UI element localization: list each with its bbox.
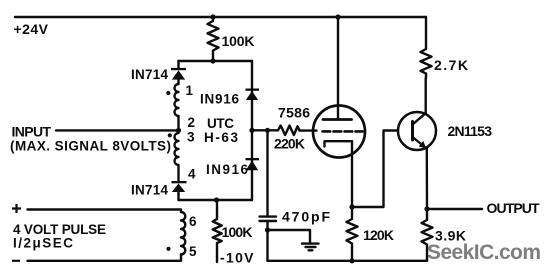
resistor R1 100K (top): [208, 17, 219, 61]
label + pulse: [12, 204, 21, 213]
pulse source top wire: [28, 210, 182, 213]
svg-text:6: 6: [189, 214, 197, 229]
svg-text:3: 3: [187, 130, 195, 145]
svg-text:IN714: IN714: [131, 183, 168, 198]
inductor winding 5-6: [181, 212, 185, 255]
svg-text:2: 2: [188, 115, 196, 130]
junction node cap/ground: [265, 227, 270, 232]
wire OUTPUT lead: [427, 208, 482, 210]
svg-text:1: 1: [186, 83, 194, 98]
svg-text:2N1153: 2N1153: [448, 123, 493, 139]
svg-text:SeekIC.com: SeekIC.com: [427, 241, 541, 264]
junction node box bottom/100K: [214, 197, 219, 202]
svg-text:INPUT: INPUT: [12, 123, 52, 139]
inductor winding 1-2: [175, 84, 179, 116]
wire 220K to tube grid: [300, 129, 317, 131]
wire box left edge upper: [177, 61, 179, 69]
junction node emitter/output: [424, 206, 429, 211]
wire 2.7K drop from rail corner: [425, 17, 427, 49]
junction node cathode: [349, 204, 354, 209]
capacitor C1 branch wire upper: [266, 130, 268, 215]
transistor emitter arrow: [419, 141, 426, 148]
transistor base bar: [411, 122, 414, 141]
transistor Q1 2N1153 envelope: [398, 112, 436, 150]
diode D4 1N916 (bottom): [246, 158, 260, 160]
svg-text:100K: 100K: [222, 224, 253, 240]
phasing dot pin3: [168, 133, 172, 137]
diode D1 1N714 (top): [171, 68, 186, 70]
resistor R3 120K: [347, 207, 358, 261]
wire below bottom diode: [177, 192, 179, 201]
wire cathode node to base riser: [352, 131, 398, 208]
wire INPUT lead: [56, 129, 179, 131]
svg-text:100K: 100K: [222, 33, 255, 49]
svg-text:+24V: +24V: [14, 21, 49, 37]
tube plate bar: [323, 118, 352, 121]
wire left edge lower: [177, 165, 179, 182]
transformer box top edge: [179, 60, 253, 62]
wire bottom rail: [268, 260, 428, 262]
transformer box bottom edge: [179, 199, 253, 201]
phasing dot pin1: [166, 91, 170, 95]
wire +24V top rail: [15, 16, 426, 18]
label - pulse: [12, 260, 20, 262]
wire left edge between diode and winding: [177, 80, 179, 85]
phasing dot pin5: [166, 247, 170, 251]
junction node box top/100K: [210, 58, 215, 63]
svg-text:5: 5: [189, 244, 197, 259]
transistor collector stroke: [413, 113, 426, 124]
svg-text:470pF: 470pF: [282, 209, 330, 225]
capacitor C1 470pF plates: [260, 217, 277, 221]
junction node rail/tube plate: [335, 14, 340, 19]
svg-text:IN916: IN916: [200, 92, 239, 107]
resistor R4 2.7K: [421, 49, 432, 78]
svg-text:4: 4: [188, 167, 196, 182]
diode D3 1N916 (top): [246, 89, 260, 91]
capacitor C1 branch wire lower: [266, 221, 268, 261]
transformer box right edge: [251, 61, 253, 200]
wire ground branch: [268, 230, 311, 243]
svg-text:OUTPUT: OUTPUT: [487, 200, 540, 216]
junction node box right/grid: [249, 128, 254, 133]
wire tube plate lead from rail: [337, 17, 339, 118]
inductor winding 3-4: [175, 133, 179, 165]
wire left edge mid (node input junction): [177, 116, 179, 133]
wire emitter down to output node: [426, 149, 429, 210]
tube V1 7586 envelope: [313, 106, 365, 158]
ground symbol: [302, 244, 319, 251]
svg-text:-10V: -10V: [220, 250, 254, 266]
svg-text:220K: 220K: [274, 136, 305, 152]
svg-text:2.7K: 2.7K: [434, 57, 468, 73]
junction node rail/100K: [210, 14, 215, 19]
diode D2 1N714 (bottom): [172, 181, 187, 183]
wire collector up to 2.7K: [425, 78, 427, 113]
resistor R5 3.9K: [422, 209, 433, 261]
svg-text:UTC: UTC: [207, 116, 234, 131]
svg-text:(MAX. SIGNAL 8VOLTS): (MAX. SIGNAL 8VOLTS): [10, 139, 171, 154]
tube cathode: [325, 141, 353, 146]
svg-text:H-63: H-63: [204, 130, 238, 145]
junction node rail/120K: [349, 258, 354, 263]
pulse source bottom wire: [28, 255, 182, 261]
resistor R2 220K: [278, 126, 300, 135]
transistor emitter stroke: [413, 137, 427, 149]
svg-text:IN714: IN714: [131, 67, 168, 82]
svg-text:120K: 120K: [363, 227, 394, 243]
resistor R6 100K (bottom, to -10V): [213, 200, 222, 262]
svg-text:IN916: IN916: [206, 162, 248, 177]
tube grid dashes: [323, 130, 363, 133]
junction node grid/cap branch: [265, 128, 270, 133]
svg-text:7586: 7586: [278, 105, 310, 121]
junction node input/winding: [176, 128, 181, 133]
wire cathode down to node: [351, 141, 353, 207]
wire grid line from box to tube: [252, 129, 278, 131]
